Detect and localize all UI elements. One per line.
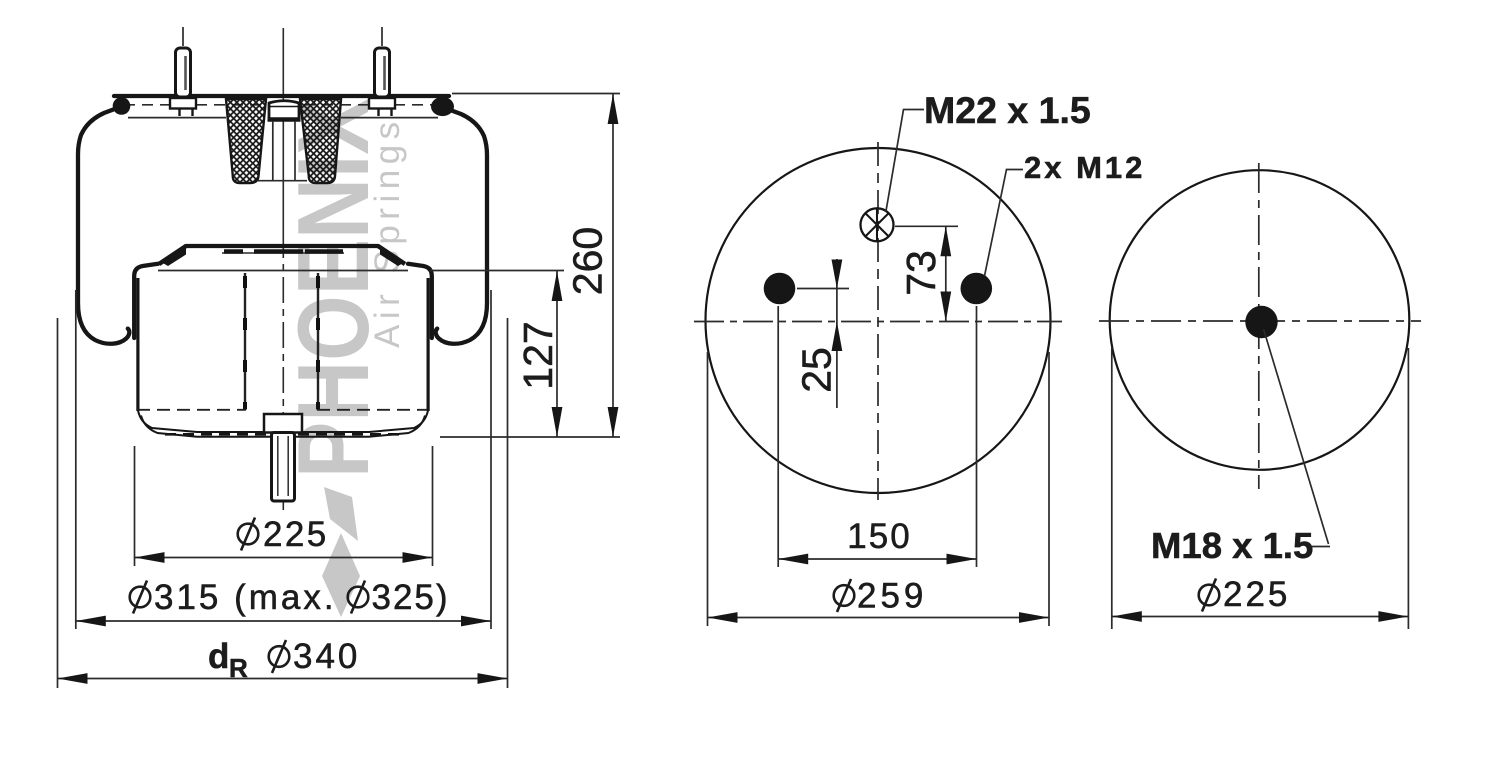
dim dia225 right view: [1112, 348, 1409, 629]
svg-text:25: 25: [794, 347, 840, 393]
center bolt head: [258, 101, 307, 181]
svg-text:225: 225: [1223, 575, 1290, 614]
svg-text:340: 340: [293, 637, 360, 676]
center boss dot: [1245, 306, 1277, 338]
center line left view: [282, 28, 284, 510]
svg-text:325): 325): [372, 578, 450, 617]
bumper right (hatched): [300, 99, 341, 183]
circle bottom view: [1110, 170, 1410, 470]
circle top view: [706, 148, 1051, 493]
leader M22: [886, 110, 924, 212]
svg-text:260: 260: [565, 227, 611, 295]
stud left: [170, 27, 196, 116]
svg-text:2x M12: 2x M12: [1024, 150, 1145, 185]
dim 25: [794, 259, 850, 408]
bead right: [431, 97, 454, 116]
svg-text:150: 150: [847, 517, 911, 556]
svg-text:M18 x 1.5: M18 x 1.5: [1151, 525, 1313, 566]
bottom stud: [272, 433, 295, 502]
leader 2x M12: [985, 170, 1024, 277]
bellows inner wall left: [134, 264, 158, 338]
watermark PHOENIX logo: [277, 98, 407, 617]
bolt left: [764, 273, 796, 305]
svg-text:R: R: [229, 653, 248, 683]
dim dR dia340: [58, 318, 508, 688]
M22 symbol: [861, 208, 894, 241]
label M18 x 1.5: [1151, 525, 1313, 566]
dim 150: [778, 306, 976, 567]
svg-text:73: 73: [898, 250, 944, 296]
bead left: [113, 97, 131, 115]
bellows inner wall right: [408, 264, 432, 338]
svg-text:127: 127: [515, 321, 561, 389]
svg-text:315 (max.: 315 (max.: [154, 578, 337, 617]
piston body sides: [138, 278, 428, 411]
svg-text:Air Springs: Air Springs: [368, 116, 407, 348]
bellows outline left: [78, 107, 129, 344]
piston bottom skirt: [137, 410, 428, 437]
dim 73: [895, 226, 958, 321]
dim 127: [430, 271, 564, 438]
svg-text:d: d: [208, 637, 229, 676]
svg-text:259: 259: [857, 577, 927, 616]
label M22 x 1.5: [924, 89, 1091, 131]
piston crown: [158, 246, 408, 271]
bottom boss: [264, 414, 302, 433]
bolt right: [961, 273, 993, 305]
dim dia259: [708, 352, 1050, 626]
piston bore lines: [245, 273, 318, 410]
leader M18: [1264, 329, 1331, 547]
dim 260: [440, 94, 620, 438]
bumper left (hatched): [226, 99, 266, 183]
center lines: [694, 142, 1062, 500]
stud right: [369, 27, 395, 116]
bellows outline right: [436, 107, 487, 344]
svg-text:M22 x 1.5: M22 x 1.5: [924, 89, 1091, 131]
top plate: [114, 96, 449, 118]
label 2x M12: [1024, 150, 1145, 185]
dim dia315 max325: [76, 290, 491, 629]
dim dia225 bottom left: [135, 446, 433, 566]
svg-text:225: 225: [263, 515, 329, 554]
center lines: [1099, 163, 1421, 489]
